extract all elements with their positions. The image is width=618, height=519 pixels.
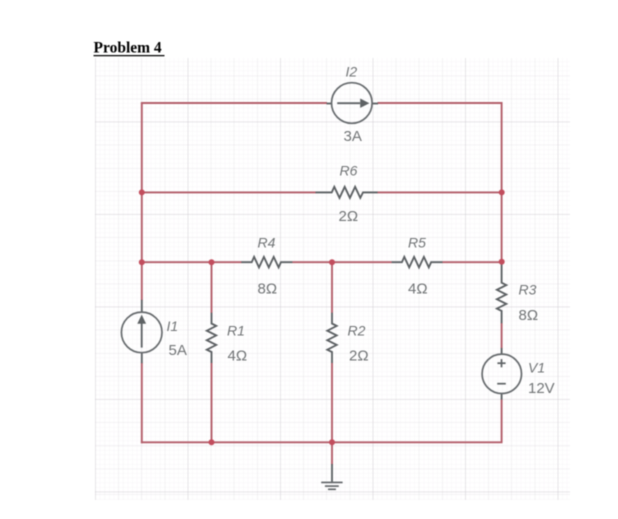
svg-text:Problem 4: Problem 4	[94, 40, 162, 57]
wire R6 row right	[377, 191, 501, 193]
svg-text:3A: 3A	[344, 128, 362, 145]
voltage source V1	[482, 348, 521, 400]
wire middle row R4 to node B	[292, 261, 392, 263]
wire R2 branch upper	[331, 262, 333, 313]
svg-text:R2: R2	[348, 323, 366, 339]
svg-text:5A: 5A	[169, 342, 187, 359]
svg-text:R6: R6	[340, 163, 358, 179]
svg-text:8Ω: 8Ω	[258, 281, 278, 298]
current source I2	[327, 83, 379, 124]
wire right rail R3-V1	[501, 323, 503, 349]
wire R1 branch upper	[211, 262, 213, 313]
svg-text:R4: R4	[258, 235, 276, 251]
svg-text:4Ω: 4Ω	[228, 348, 248, 365]
node left rail / middle row	[139, 259, 145, 265]
node right rail / R6 row	[499, 189, 505, 195]
wire ground drop	[331, 442, 333, 465]
wire middle row R5 to right rail	[442, 261, 501, 263]
svg-text:4Ω: 4Ω	[408, 281, 428, 298]
svg-text:V1: V1	[528, 360, 545, 376]
wire left rail upper	[141, 103, 143, 301]
wire right rail below V1	[501, 399, 503, 442]
node R1 top	[209, 259, 215, 265]
current source I1	[121, 300, 162, 363]
svg-text:I2: I2	[346, 64, 358, 80]
resistor R1	[207, 313, 216, 363]
svg-text:I1: I1	[167, 318, 179, 334]
wire R2 branch lower	[331, 363, 333, 443]
wire bottom rail	[141, 441, 503, 443]
svg-text:R1: R1	[227, 323, 245, 339]
svg-text:2Ω: 2Ω	[349, 348, 369, 365]
ground	[321, 464, 342, 489]
svg-text:R3: R3	[519, 282, 537, 298]
resistor R6	[316, 187, 378, 198]
svg-text:8Ω: 8Ω	[519, 307, 539, 324]
resistor R5	[392, 257, 443, 268]
svg-text:12V: 12V	[528, 380, 555, 397]
wire top-right horizontal	[378, 102, 503, 104]
resistor R3	[497, 264, 506, 323]
svg-text:R5: R5	[408, 235, 426, 251]
node ground junction	[329, 439, 335, 445]
wire right rail upper	[501, 102, 503, 264]
node R1 bottom	[209, 439, 215, 445]
wire R1 branch lower	[211, 363, 213, 443]
wire left rail lower	[141, 363, 143, 443]
resistor R2	[327, 313, 336, 363]
resistor R4	[241, 257, 292, 268]
wire middle row node A to R4	[141, 261, 242, 263]
node right rail / middle row	[499, 259, 505, 265]
svg-text:2Ω: 2Ω	[339, 208, 359, 225]
wire top-left horizontal	[141, 102, 327, 104]
node R2 top	[329, 259, 335, 265]
wire R6 row left	[141, 191, 316, 193]
node left rail / R6 row	[139, 189, 145, 195]
